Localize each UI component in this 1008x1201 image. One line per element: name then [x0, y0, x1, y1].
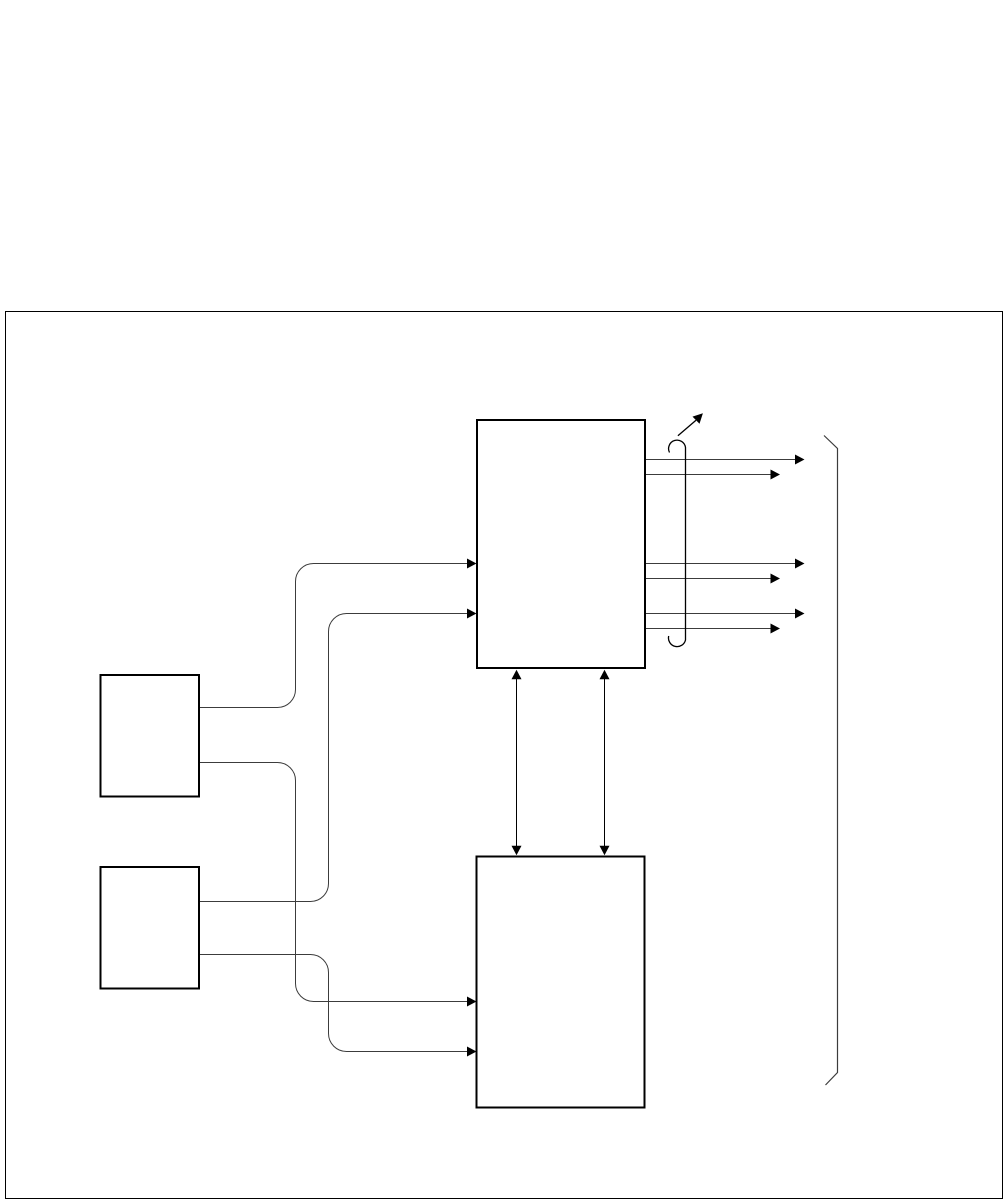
- block S2: [101, 867, 200, 989]
- cable bundle loop: [668, 440, 685, 646]
- wire W5: [646, 609, 805, 619]
- wire W6: [646, 624, 780, 634]
- wire W2: [646, 470, 780, 480]
- wire W1: [646, 455, 805, 465]
- wire C: [200, 609, 477, 902]
- wire W4: [646, 574, 780, 584]
- wire A: [200, 559, 477, 708]
- wire D: [200, 955, 477, 1057]
- wire W3: [646, 559, 805, 569]
- bracket (right brace): [824, 436, 838, 1086]
- block U1: [477, 420, 645, 668]
- wire B: [200, 763, 477, 1007]
- block U2: [477, 857, 645, 1108]
- bus arrow V1: [512, 670, 522, 856]
- arrow up-right: [678, 413, 703, 435]
- block S1: [101, 675, 200, 797]
- bus arrow V2: [600, 670, 610, 856]
